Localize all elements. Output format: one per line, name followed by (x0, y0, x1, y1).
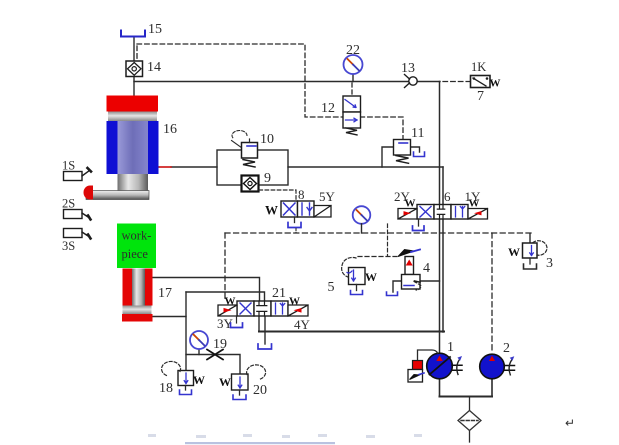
svg-text:1Y: 1Y (465, 189, 482, 204)
tank below valve 11 (414, 152, 425, 157)
valve 6 right solenoid 1Y (468, 198, 488, 220)
valve 21 drain tank under 3Y (236, 316, 238, 323)
svg-text:W: W (225, 296, 236, 308)
wire valve 4 right port to pressure line (420, 280, 440, 282)
tank below valve 4 (387, 292, 398, 296)
wire gauge 22 stem (352, 73, 354, 82)
manifold block around valves 9 and 10 (217, 150, 288, 185)
unloading valve 12 (343, 96, 361, 135)
svg-text:2S: 2S (62, 197, 75, 211)
tank symbol below valve 8 (288, 223, 301, 228)
wire vertical pair from upper lines down to valve 6 (439, 82, 441, 206)
wire pilot dashed stub into check valve 14 (136, 46, 138, 59)
svg-text:5: 5 (328, 280, 335, 295)
svg-text:↵: ↵ (565, 416, 575, 430)
pilot relief valve 5 (342, 257, 377, 294)
gauge 22 (344, 55, 363, 74)
svg-text:work-: work- (122, 229, 152, 243)
accumulator symbol 15 (121, 31, 145, 37)
limit switch 3S (64, 229, 91, 239)
svg-text:3S: 3S (62, 239, 75, 253)
wire valve 21 P port to pressure line (258, 316, 260, 332)
wire dashed pilot x=387.5 between manifold and valve 4 pilot line (387, 224, 389, 256)
platen red hook (84, 186, 94, 200)
cylinder 16 right blue wall (148, 121, 159, 174)
svg-text:W: W (265, 203, 278, 218)
svg-text:7: 7 (477, 89, 484, 104)
svg-text:16: 16 (163, 122, 177, 137)
gauge between valve 8 and valve 6 (353, 206, 371, 233)
wire valve 4 left port to tank (393, 281, 402, 292)
cylinder 17 left red wall (123, 269, 133, 306)
svg-text:4: 4 (423, 261, 430, 276)
cropped caption remnants (148, 434, 422, 444)
limit switch 2S (64, 210, 91, 220)
svg-text:11: 11 (411, 126, 424, 141)
svg-text:piece: piece (122, 247, 149, 261)
svg-text:12: 12 (321, 101, 335, 116)
wire left branch vertical x=186 (185, 292, 187, 371)
valve 8 solenoid box (314, 206, 331, 218)
valve 6 left solenoid 2Y (398, 198, 417, 220)
valve 8 drain to tank (294, 217, 296, 223)
wire dashed pilot valve 5 to valve 4 flag (358, 256, 400, 258)
wire valve 21 T port to tank (264, 316, 266, 344)
pump 1 compensator (408, 350, 438, 382)
svg-text:W: W (490, 78, 501, 90)
svg-text:W: W (289, 296, 300, 308)
svg-text:4Y: 4Y (294, 317, 311, 332)
svg-text:17: 17 (158, 286, 172, 301)
svg-text:1S: 1S (62, 159, 75, 173)
svg-text:13: 13 (401, 61, 415, 76)
counterbalance valve 20 (219, 365, 266, 400)
wire pump 1 suction (439, 379, 441, 396)
wire dashed riser pump 2 to drain manifold (491, 233, 493, 353)
svg-text:2Y: 2Y (394, 189, 411, 204)
svg-text:W: W (508, 245, 520, 259)
cylinder 16 gray gland band (108, 112, 157, 122)
svg-text:14: 14 (147, 60, 161, 75)
svg-text:21: 21 (272, 286, 286, 301)
wire below filter (469, 430, 471, 442)
svg-text:5Y: 5Y (319, 189, 336, 204)
pump 2 (480, 354, 515, 379)
cylinder 16 red cap (107, 96, 159, 112)
counterbalance valve 18 (162, 361, 205, 394)
wire gauge 19 stem (198, 349, 200, 355)
wire pump 2 suction (491, 379, 493, 396)
svg-text:15: 15 (148, 22, 162, 37)
svg-text:W: W (365, 270, 377, 284)
gauge 19 (190, 331, 208, 349)
cylinder 17 right red wall (145, 269, 153, 306)
cylinder 17 piston (123, 306, 152, 315)
svg-text:8: 8 (298, 187, 305, 202)
pump 1 (427, 353, 462, 379)
wire vertical pair from valve 6 down to pump line (439, 219, 441, 331)
valve 21 right solenoid 4Y (288, 296, 308, 317)
svg-text:10: 10 (260, 132, 274, 147)
wire dashed to pressure switch 1K (443, 81, 470, 83)
cylinder 16 piston core (118, 121, 149, 174)
svg-text:20: 20 (253, 383, 267, 398)
wire cylinder 17 upper port to valve 21 A (152, 278, 260, 302)
wire from accumulator 15 down through check valve 14 to cylinder 16 (133, 37, 135, 96)
wire valve 11 left leg to main line (382, 147, 394, 167)
limit switch 1S (64, 168, 92, 181)
svg-text:1: 1 (447, 340, 454, 355)
relief valve 11 (394, 140, 411, 164)
pilot check valve 14 (126, 61, 143, 77)
tank at valve 21 T line (258, 344, 272, 349)
cylinder 16 left blue wall (107, 121, 118, 174)
cylinder 16 ram rod (118, 174, 149, 191)
directional valve 21 body (237, 301, 288, 316)
workpiece block (117, 224, 156, 269)
svg-text:1K: 1K (471, 60, 486, 74)
check valve 13 (405, 75, 418, 88)
svg-text:W: W (219, 375, 231, 389)
wire main upper horizontal line y=81.5 (134, 81, 440, 83)
proportional relief valve 4 (398, 250, 421, 291)
svg-text:6: 6 (444, 189, 451, 204)
sequence valve 10 (232, 131, 258, 167)
pressure switch 1K 7 (471, 76, 491, 88)
svg-text:9: 9 (264, 171, 271, 186)
wire bottom pressure line y=331.5 (259, 331, 444, 333)
svg-text:18: 18 (159, 381, 173, 396)
cylinder 17 rod (132, 269, 145, 306)
cylinder 17 red base (122, 314, 153, 322)
valve 21 left solenoid 3Y (218, 296, 237, 317)
suction filter (458, 411, 481, 431)
wire dashed stem from line y81 to valve 12 (351, 83, 353, 96)
directional valve 6 body (417, 205, 468, 220)
svg-text:3: 3 (546, 256, 553, 271)
check valve 9 (242, 176, 259, 192)
valve 6 drain stub and tank (418, 219, 420, 226)
svg-text:22: 22 (346, 43, 360, 58)
wire red port stub of cylinder 16 (158, 166, 171, 168)
wire dashed drain manifold y=233 (225, 232, 531, 234)
solenoid valve 8 body (281, 201, 314, 217)
wire valve 3 riser to drain manifold (529, 234, 531, 243)
remote relief valve 3 (508, 241, 547, 269)
wire suction header (440, 396, 493, 398)
wire main mid horizontal line y=167 from cylinder 16 (171, 166, 443, 168)
pilot drain stub below valve 8 tank (295, 229, 297, 234)
pilot dashed from check valve 9 to valve 8 (259, 190, 296, 202)
wire pilot dashed valve 12 to valve 11 (360, 117, 403, 140)
wire dashed drop to valve 21 pilot (224, 233, 226, 300)
wire valve 11 right leg to drain (410, 147, 420, 152)
wire pilot dashed from 15 line to node at x305 then to valve 12 (137, 44, 343, 117)
svg-text:W: W (193, 373, 205, 387)
svg-text:2: 2 (503, 341, 510, 356)
wire top of meter loop to valve 21 B (186, 292, 265, 301)
press platen bar (86, 191, 149, 200)
wire throttle line y=354 (186, 355, 240, 375)
svg-text:3Y: 3Y (217, 316, 234, 331)
svg-text:19: 19 (213, 337, 227, 352)
wire cylinder 17 lower port (152, 316, 186, 318)
wire filter riser (469, 397, 471, 412)
throttle valve 19 (207, 350, 223, 360)
